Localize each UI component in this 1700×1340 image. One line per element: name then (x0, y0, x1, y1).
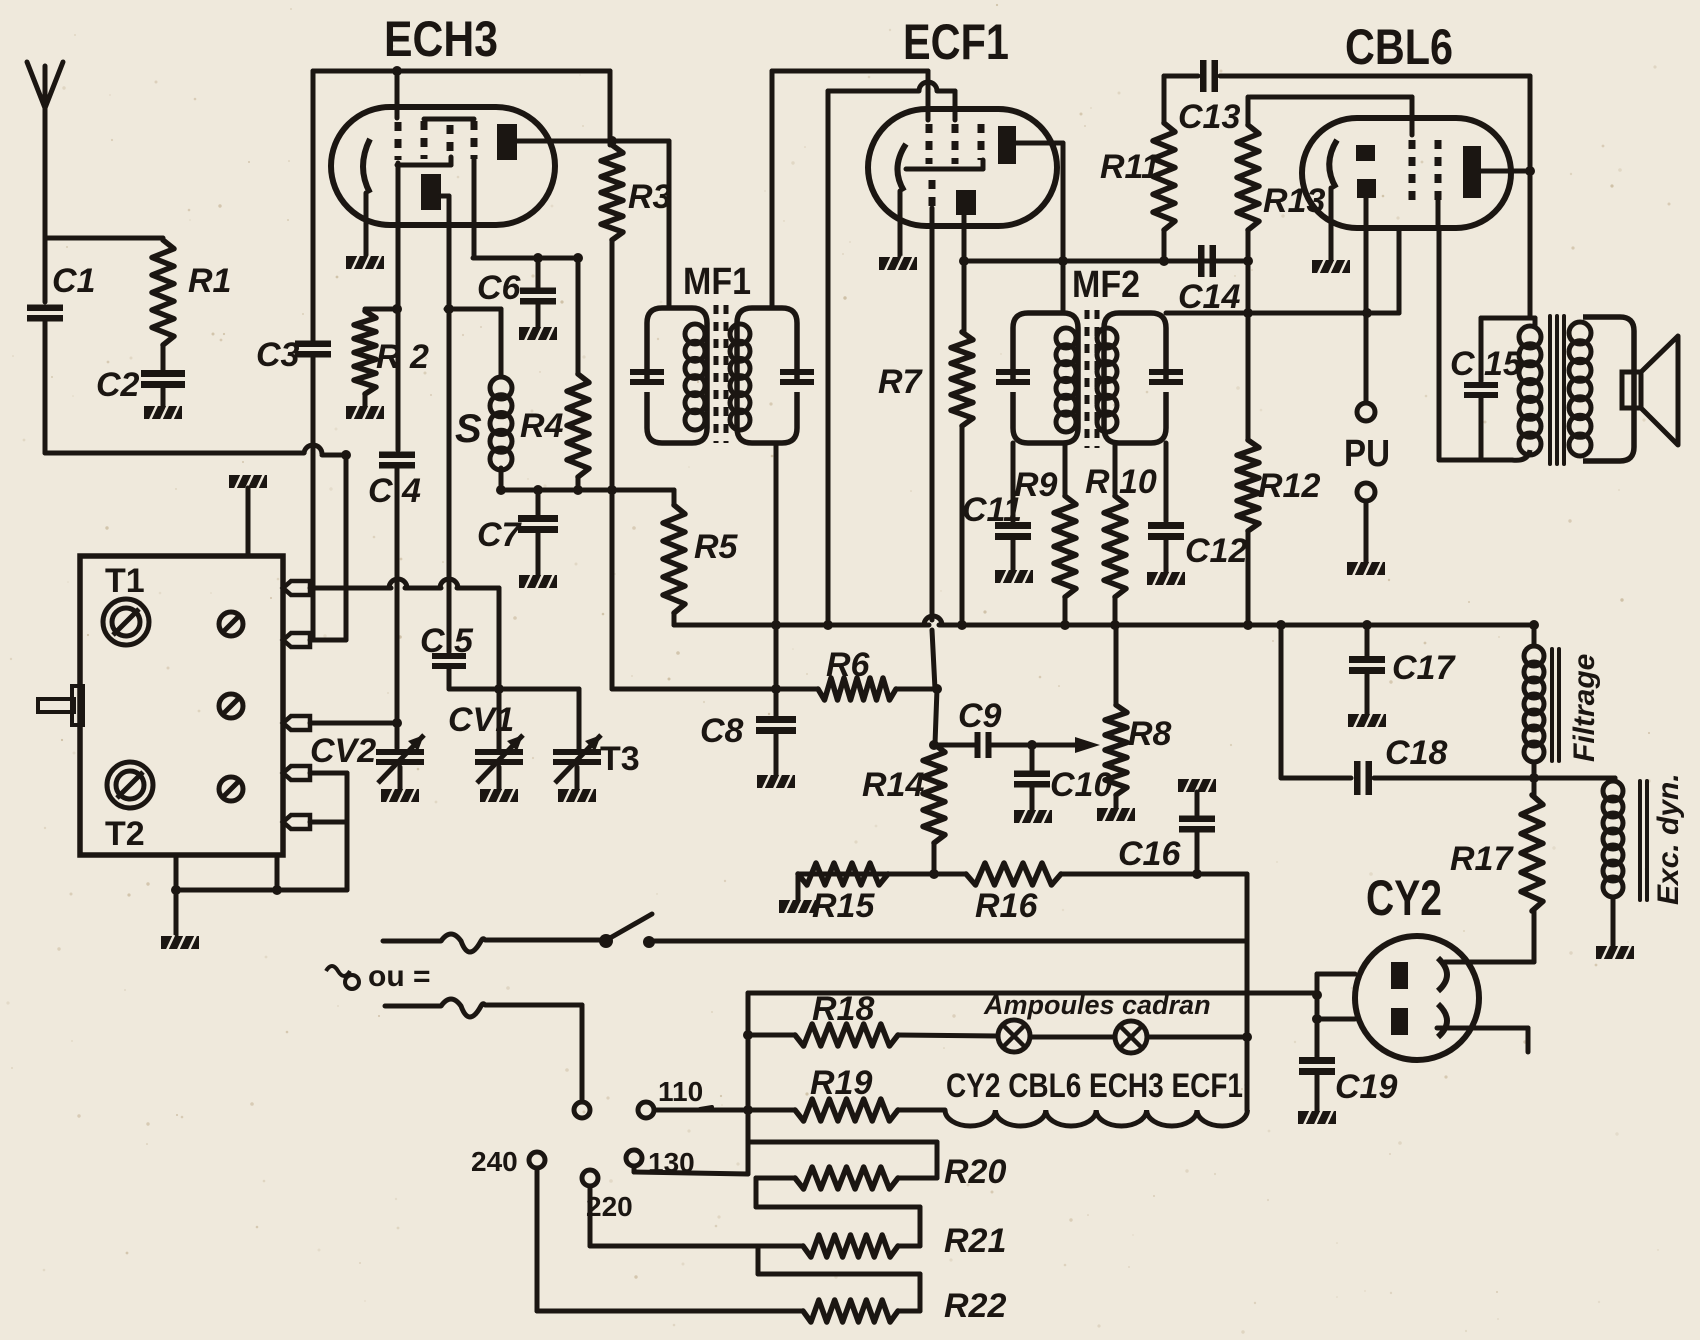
crossover hop at x313 (304, 445, 322, 454)
label T2 (105, 815, 145, 853)
label heater tubes (946, 1067, 1243, 1105)
label R2 (376, 338, 429, 376)
wire AVC bus y874 (798, 869, 1247, 879)
hops on tab1 row (389, 579, 458, 588)
resistor R4 (567, 374, 589, 477)
filtrage choke (1524, 625, 1544, 778)
capacitor C17 (1349, 625, 1385, 674)
switch arm 110 (700, 1107, 712, 1109)
label T1 (105, 562, 145, 600)
label ou = (368, 960, 431, 993)
label C16 (1118, 835, 1181, 873)
ground below C19 (1298, 1110, 1336, 1125)
wire heater chain end (1245, 874, 1250, 1110)
label R11 (1100, 148, 1160, 186)
svg-text:T3: T3 (600, 740, 640, 778)
resistor R17 (1521, 778, 1543, 911)
mains wire 1 (383, 934, 600, 952)
label MF2 (1072, 264, 1140, 306)
label CV2 (310, 732, 376, 770)
wire R1 to C2 (161, 345, 166, 370)
wire B+ takeoff bus (746, 993, 751, 1174)
MF1 primary cap (630, 369, 664, 385)
wire tab3 row (310, 721, 397, 726)
ground ECH3 cathode (346, 255, 384, 270)
tube ECF1 (868, 109, 1057, 226)
label C4 (368, 472, 421, 510)
MF2 secondary coil (1097, 328, 1117, 432)
svg-text:Exc. dyn.: Exc. dyn. (1652, 773, 1685, 905)
svg-text:C13: C13 (1178, 98, 1240, 136)
ground below C17 (1348, 713, 1386, 728)
tab 5 (283, 815, 310, 829)
wire R22 right (898, 1309, 920, 1314)
label C13 (1178, 98, 1240, 136)
tab 1 (283, 581, 310, 595)
wire tab4 tab5 (310, 773, 347, 890)
label R17 (1450, 840, 1514, 878)
wire C10 ground (1030, 786, 1035, 810)
wire pentode anode (1014, 143, 1063, 313)
resistor R6 (818, 678, 896, 700)
svg-text:R19: R19 (810, 1064, 872, 1102)
CBL6 grid columns (1412, 140, 1438, 228)
resistor R3 (601, 145, 623, 240)
label R8 (1128, 715, 1172, 753)
svg-text:Ampoules cadran: Ampoules cadran (983, 990, 1211, 1020)
svg-text:R21: R21 (944, 1222, 1006, 1260)
label C3 (256, 336, 300, 374)
label R19 (810, 1064, 872, 1102)
tube CY2 (1355, 936, 1479, 1060)
label C6 (477, 269, 522, 307)
svg-text:MF2: MF2 (1072, 264, 1140, 306)
wire 220 tap (590, 1186, 803, 1246)
svg-text:C1: C1 (52, 262, 95, 300)
ECH3 cathode (363, 139, 370, 256)
wire C17 ground (1365, 672, 1370, 714)
wire bus2 link (1279, 625, 1284, 778)
wire S bottom (499, 468, 504, 490)
junction (341, 450, 351, 460)
label T3 (600, 740, 640, 778)
tab 3 (283, 716, 310, 730)
variable capacitor T3 (553, 689, 601, 783)
label Ampoules cadran (983, 990, 1211, 1020)
label 110 (658, 1076, 703, 1107)
resistor R18 (795, 1024, 898, 1046)
label R16 (975, 887, 1038, 925)
svg-text:C3: C3 (256, 336, 300, 374)
label C15 (1450, 345, 1523, 383)
tab 2 (283, 633, 310, 647)
capacitor C7 (518, 485, 558, 533)
wire anode bus y261 (959, 256, 1248, 266)
inverted ground above C16 (1178, 778, 1216, 815)
capacitor C18 (1354, 761, 1372, 795)
wire C5 bottom (449, 668, 579, 689)
small screw 1 (219, 612, 243, 636)
terminal 110 (638, 1102, 654, 1118)
ECH3 grid column 3 (397, 125, 451, 165)
label 220 (586, 1191, 633, 1222)
svg-text:C2: C2 (96, 366, 140, 404)
capacitor C19 (1299, 1057, 1335, 1075)
resistor R20 (756, 1167, 937, 1189)
wire C8 ground (774, 732, 779, 775)
variable capacitor CV2 (376, 718, 424, 783)
wire osc line to R6 (612, 490, 942, 744)
svg-text:R14: R14 (862, 766, 924, 804)
ground below C12 (1147, 571, 1185, 586)
output transformer primary (1439, 228, 1535, 460)
wire C12 ground (1164, 538, 1169, 572)
label C18 (1385, 734, 1447, 772)
wire CBL6 grid to PU (1364, 198, 1369, 403)
tab 4 (283, 766, 310, 780)
svg-text:240: 240 (471, 1146, 518, 1177)
capacitor C3 (295, 341, 331, 358)
svg-text:R17: R17 (1450, 840, 1514, 878)
svg-text:C6: C6 (477, 269, 522, 307)
wire antenna to C2/R1 (45, 238, 163, 453)
svg-text:R15: R15 (812, 887, 875, 925)
wire tab2 row (310, 638, 346, 643)
resistor R10 (1104, 443, 1126, 625)
capacitor C16 (1179, 816, 1215, 875)
mains plug symbol (326, 966, 359, 989)
MF2 secondary cap (1149, 369, 1183, 385)
svg-text:R12: R12 (1258, 467, 1320, 505)
ECF1 cathode (897, 144, 906, 257)
label R14 (862, 766, 924, 804)
resistor R11 (1153, 76, 1175, 261)
label C14 (1178, 278, 1240, 316)
label Filtrage (1568, 654, 1601, 762)
wire R11 top corner (1164, 74, 1198, 79)
MF1 secondary cap (780, 369, 814, 385)
svg-text:R1: R1 (188, 262, 231, 300)
MF2 core (1087, 310, 1097, 448)
wire CV2 ground (398, 767, 403, 789)
label R6 (826, 646, 871, 684)
wire triode anode down (962, 215, 967, 261)
label Exc dyn (1652, 773, 1685, 905)
ground below T3 (558, 788, 596, 803)
wire PU ground (1364, 501, 1369, 562)
svg-text:C 15: C 15 (1450, 345, 1523, 383)
resistor R13 (1237, 97, 1259, 313)
C9 arrow to R8 (1075, 737, 1100, 753)
switch box T1 T2 (80, 556, 283, 855)
wire x313 upper (311, 71, 316, 342)
wire grid stub into ECH3 (392, 66, 402, 118)
capacitor C15 (1464, 318, 1498, 460)
ground below C8 (757, 774, 795, 789)
label CV1 (448, 701, 514, 739)
ground below CV1 (480, 788, 518, 803)
ground ECF1 cathode (879, 256, 917, 271)
CY2 plate 1 (1391, 962, 1408, 989)
ECH3 grid column 1 (395, 122, 402, 225)
svg-text:T2: T2 (105, 815, 145, 853)
wire C2 to ground (161, 386, 166, 406)
svg-text:C16: C16 (1118, 835, 1181, 873)
wire CY2 anode bottom (1312, 990, 1355, 1024)
MF1 primary coil (685, 324, 705, 430)
ground below C6 (519, 326, 557, 341)
svg-text:C11: C11 (962, 491, 1022, 529)
wire cascade R21-R22 (758, 1246, 920, 1311)
MF1 core (716, 305, 726, 443)
hop grid over bus (924, 616, 942, 625)
wire B+ bus (674, 620, 1539, 630)
svg-text:C7: C7 (477, 516, 523, 554)
mains wire 1 cont (652, 939, 1247, 944)
label C1 (52, 262, 95, 300)
capacitor C11 (995, 443, 1031, 540)
svg-text:R13: R13 (1263, 182, 1325, 220)
screw T2 (107, 762, 153, 808)
capacitor C5 (432, 653, 466, 669)
MF1 secondary coil (730, 324, 750, 430)
primary coil (1512, 326, 1541, 460)
wire diode plate stub (1397, 228, 1402, 313)
CBL6 triode anode (1356, 145, 1375, 161)
ECF1 triode anode (956, 190, 976, 215)
svg-text:R6: R6 (826, 646, 871, 684)
resistor R7 (951, 261, 973, 625)
ground below C11 (995, 569, 1033, 584)
power switch (599, 914, 655, 948)
wire ECF1 triode grid (932, 208, 935, 689)
terminal 130 (626, 1150, 642, 1166)
wire R17 to CY2 (1445, 911, 1534, 962)
MF1 primary box (647, 308, 707, 443)
resistor R15 (798, 863, 888, 885)
svg-text:R4: R4 (520, 407, 564, 445)
label R21 (944, 1222, 1006, 1260)
mains wire 2 (385, 999, 582, 1101)
label CY2 (1366, 870, 1442, 926)
capacitor C9 (975, 732, 992, 758)
tube CBL6 (1302, 118, 1511, 228)
svg-text:CY2 CBL6 ECH3 ECF1: CY2 CBL6 ECH3 ECF1 (946, 1067, 1243, 1105)
ECF1 grid stub 2 (953, 91, 958, 120)
wire grid line down (494, 588, 504, 752)
label R7 (878, 363, 924, 401)
label C12 (1185, 532, 1247, 570)
heater chain (945, 1110, 1247, 1126)
wire R3 down (610, 240, 615, 490)
CY2 cathode arcs (1438, 958, 1447, 1037)
ground below box (161, 935, 199, 950)
label R12 (1258, 467, 1320, 505)
ground below R8 (1097, 807, 1135, 822)
wire y313 net (1166, 308, 1399, 318)
wire 130 tap (634, 1166, 748, 1174)
exc dyn core (1640, 781, 1647, 900)
CBL6 grid cap stub (1410, 97, 1415, 135)
svg-text:R11: R11 (1100, 148, 1160, 186)
ECF1 grid stub 1 (926, 71, 931, 120)
label 240 (471, 1146, 518, 1177)
wire C4 down to tab3 (395, 467, 400, 723)
wire 110 row (654, 1105, 795, 1115)
resistor R12 (1237, 308, 1259, 625)
ECF1 triode grid column (929, 180, 936, 208)
label C7 (477, 516, 523, 554)
label S (455, 407, 482, 451)
svg-text:R9: R9 (1014, 466, 1058, 504)
capacitor C13 (1200, 60, 1218, 92)
ECH3 triode anode (421, 174, 449, 210)
wire cascade R20-R21 (756, 1178, 920, 1246)
svg-text:R 10: R 10 (1085, 463, 1157, 501)
wire tab1 row (310, 586, 499, 591)
svg-text:CV1: CV1 (448, 701, 514, 739)
MF2 primary box (1013, 313, 1078, 443)
svg-text:R16: R16 (975, 887, 1038, 925)
ECF1 pentode anode (998, 126, 1016, 164)
wire CV1 ground (497, 767, 502, 789)
label R22 (944, 1287, 1006, 1325)
variable capacitor CV1 (475, 735, 523, 783)
PU terminal 1 (1357, 403, 1375, 421)
wire C13 to CBL6 box (1220, 74, 1530, 79)
resistor R5 (663, 490, 685, 613)
label CBL6 (1345, 19, 1453, 75)
label ECH3 (384, 11, 498, 67)
ECF1 grid column 2 (952, 124, 959, 164)
svg-text:C 5: C 5 (420, 622, 474, 660)
MF1 secondary box (737, 308, 797, 443)
wire S coil top stub (444, 304, 501, 377)
label R15 (812, 887, 875, 925)
speaker (1622, 336, 1678, 445)
label C17 (1392, 649, 1456, 687)
svg-text:R8: R8 (1128, 715, 1172, 753)
transformer core (1550, 316, 1564, 464)
CY2 plate 2 (1391, 1008, 1408, 1035)
ECF1 outer box (772, 71, 928, 308)
capacitor C12 (1148, 443, 1184, 540)
inductor S (490, 377, 512, 470)
svg-text:ECH3: ECH3 (384, 11, 498, 67)
resistor R8 (1105, 625, 1127, 795)
ground CBL6 cathode (1312, 259, 1350, 274)
label C5 (420, 622, 474, 660)
svg-text:110: 110 (658, 1076, 703, 1107)
svg-text:R20: R20 (944, 1153, 1006, 1191)
resistor R14 (923, 744, 945, 874)
capacitor C2 (141, 370, 185, 388)
MF2 secondary box (1104, 313, 1166, 443)
MF2 primary coil (1056, 328, 1076, 432)
svg-text:C18: C18 (1385, 734, 1447, 772)
wire T3 ground (575, 767, 580, 789)
label R13 (1263, 182, 1325, 220)
ground below C10 (1014, 809, 1052, 824)
wire ECH3 top bus (313, 69, 610, 74)
wire R15 ground (796, 874, 801, 900)
wire R5 bottom corner (672, 613, 677, 625)
ground below C7 (519, 574, 557, 589)
tube ECH3 (331, 107, 555, 225)
ground below R15 (779, 899, 817, 914)
wire CBL6 anode (1481, 166, 1535, 176)
capacitor C1 (27, 305, 63, 322)
resistor R19 (795, 1099, 898, 1121)
wire ECH3 anode (516, 136, 669, 146)
shaft (38, 686, 83, 725)
label R9 (1014, 466, 1058, 504)
label PU (1344, 433, 1390, 475)
capacitor C10 (1014, 740, 1050, 788)
label R4 (520, 407, 564, 445)
wire triode anode down (447, 196, 452, 652)
resistor R1 (152, 240, 174, 345)
capacitor C14 (1198, 245, 1216, 277)
svg-text:C9: C9 (958, 697, 1002, 735)
terminal (574, 1102, 590, 1118)
wire CY2 feed (748, 991, 1317, 996)
wire C6 to ground (536, 303, 541, 327)
label R18 (812, 990, 874, 1028)
svg-text:R 2: R 2 (376, 338, 429, 376)
svg-text:R5: R5 (694, 528, 739, 566)
ECH3 grid column 4 (471, 121, 478, 258)
wire R18 row (743, 1030, 1252, 1042)
svg-text:C10: C10 (1050, 766, 1112, 804)
ECF1 inner wire (828, 82, 955, 625)
wire down to switchbox (344, 455, 349, 640)
wire bus corner to R3 (608, 71, 613, 145)
resistor R16 (966, 863, 1061, 885)
ground stem box (171, 855, 181, 936)
svg-text:CY2: CY2 (1366, 870, 1442, 926)
wire screen feed x776 (774, 443, 779, 689)
wire ECH3 cathode line (396, 225, 401, 450)
svg-text:220: 220 (586, 1191, 633, 1222)
label C11 (962, 491, 1022, 529)
svg-text:C19: C19 (1335, 1068, 1397, 1106)
CBL6 anode (1463, 146, 1481, 198)
ECH3 hexode anode (497, 124, 517, 160)
label C19 (1335, 1068, 1397, 1106)
wire R4 top (573, 253, 583, 374)
exc dyn coil (1603, 778, 1623, 897)
wire C9 net (929, 740, 1079, 750)
wire x313 lower (311, 356, 316, 640)
label 130 (648, 1147, 695, 1178)
svg-text:C14: C14 (1178, 278, 1240, 316)
dial lamp 2 (1115, 1021, 1147, 1053)
svg-text:ECF1: ECF1 (903, 14, 1009, 70)
label R20 (944, 1153, 1006, 1191)
ground below PU (1347, 561, 1385, 576)
terminal 240 (529, 1152, 545, 1168)
resistor R9 (1054, 443, 1076, 625)
secondary coil box (1583, 317, 1634, 461)
small screw 3 (219, 777, 243, 801)
CBL6 cathode (1329, 140, 1337, 260)
wire ladder row1 (748, 1142, 937, 1178)
PU terminal 2 (1357, 483, 1375, 501)
svg-text:Filtrage: Filtrage (1568, 654, 1601, 762)
ECF1 grid column 3 (978, 124, 985, 160)
svg-text:S: S (455, 407, 482, 451)
